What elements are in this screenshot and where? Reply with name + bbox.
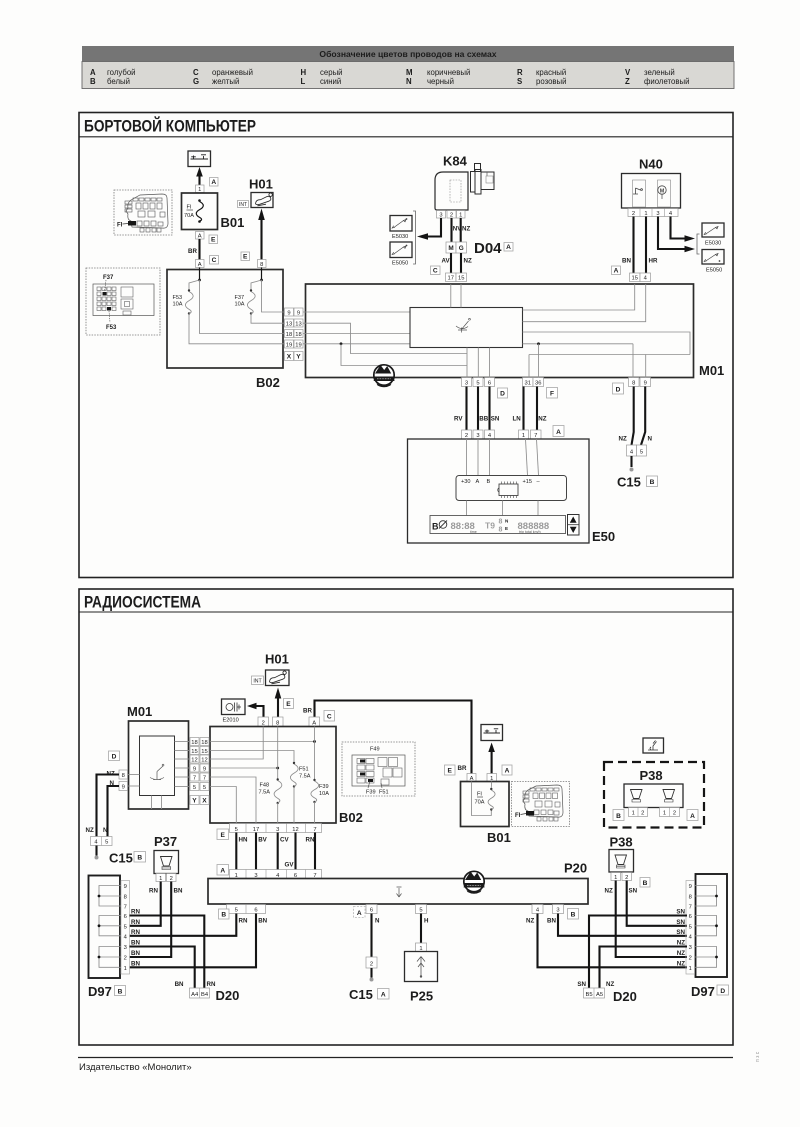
svg-text:A: A — [198, 262, 202, 268]
svg-text:P38: P38 — [640, 768, 663, 783]
svg-text:C15: C15 — [349, 987, 373, 1002]
wire C15 stub — [630, 456, 634, 472]
svg-text:19: 19 — [295, 342, 301, 348]
node A label — [210, 178, 219, 187]
wire N to C15 — [372, 914, 381, 958]
speaker P37 — [154, 834, 179, 874]
svg-text:G: G — [193, 77, 199, 86]
svg-text:A4: A4 — [191, 992, 199, 998]
wire AV to M01 pin 17 — [442, 253, 452, 273]
svg-text:18: 18 — [201, 740, 207, 746]
svg-text:9: 9 — [689, 884, 692, 890]
svg-text:6: 6 — [254, 908, 257, 914]
wire CV — [278, 833, 290, 870]
svg-text:10A: 10A — [319, 791, 329, 797]
svg-text:RN: RN — [131, 919, 140, 926]
svg-text:Обозначение цветов проводов на: Обозначение цветов проводов на схемах — [319, 49, 496, 59]
svg-text:NZ: NZ — [526, 918, 534, 925]
service box E5030 right — [702, 223, 724, 247]
svg-text:5: 5 — [203, 785, 206, 791]
svg-text:L: L — [301, 77, 306, 86]
wire NZ M01 pin 8 to C15 — [97, 775, 120, 837]
wire NZ — [537, 387, 547, 431]
node B label — [640, 878, 650, 888]
connector C15 pin 2 — [366, 957, 377, 968]
svg-text:BN: BN — [131, 960, 140, 967]
svg-text:7: 7 — [193, 775, 196, 781]
node E label — [209, 235, 218, 244]
svg-text:5: 5 — [476, 381, 479, 387]
svg-text:15: 15 — [458, 276, 464, 282]
wire NZ P20 pin4 to D97 pin1 — [526, 914, 687, 968]
wire H to P25 — [421, 914, 429, 944]
svg-text:9: 9 — [644, 381, 647, 387]
svg-text:E2010: E2010 — [223, 718, 239, 724]
svg-text:13: 13 — [295, 321, 301, 327]
svg-text:C: C — [212, 257, 217, 264]
node E label — [241, 252, 250, 261]
pins 8 9 of M01 bottom right — [629, 378, 651, 387]
svg-text:7.5A: 7.5A — [299, 774, 311, 780]
svg-text:N: N — [648, 436, 653, 443]
svg-text:2: 2 — [170, 876, 173, 882]
wire C15 stub — [95, 846, 99, 860]
svg-text:B: B — [643, 880, 648, 887]
service box E5030 — [390, 216, 412, 241]
svg-text:E: E — [505, 526, 508, 531]
svg-text:B02: B02 — [256, 375, 280, 390]
svg-text:S: S — [517, 77, 522, 86]
svg-text:2: 2 — [262, 720, 265, 726]
pins 8 9 of M01 left — [107, 770, 140, 791]
wire BB — [478, 387, 489, 431]
antenna amplifier E2010 — [222, 699, 246, 724]
fuse F51 7.5A — [290, 762, 310, 823]
wire LN — [513, 387, 524, 431]
svg-text:X: X — [202, 798, 207, 805]
svg-text:2: 2 — [625, 875, 628, 881]
svg-text:1: 1 — [159, 876, 162, 882]
svg-text:B: B — [221, 912, 226, 919]
wire NZ P38 pin1 to D97 pin2 — [605, 881, 688, 958]
svg-text:B: B — [487, 479, 491, 485]
wire loop right side — [523, 332, 691, 355]
svg-text:17: 17 — [447, 276, 453, 282]
svg-text:2: 2 — [124, 956, 127, 962]
wire from D04 pin 15 into M01 — [460, 284, 462, 308]
wire row 18 to pin A with junction — [210, 727, 316, 781]
D97 right label — [691, 984, 729, 999]
svg-text:синий: синий — [320, 77, 341, 86]
svg-text:E5050: E5050 — [706, 268, 722, 274]
svg-text:N: N — [406, 77, 412, 86]
svg-text:B4: B4 — [201, 992, 209, 998]
wire N M01 pin 9 to C15 — [108, 786, 120, 837]
svg-text:A: A — [90, 68, 96, 77]
svg-text:A: A — [211, 179, 216, 186]
svg-text:коричневый: коричневый — [427, 68, 470, 77]
wire N40 pin 3 arrow — [658, 217, 695, 253]
svg-text:13: 13 — [286, 321, 292, 327]
svg-text:FI: FI — [515, 813, 521, 819]
connector halves Y X labels — [190, 796, 209, 805]
svg-text:5: 5 — [689, 924, 692, 930]
wire battery feed inside B02 — [189, 268, 285, 334]
svg-text:NZ: NZ — [619, 436, 627, 443]
pins 1 2 of P37 — [156, 874, 176, 882]
D97 left label — [88, 984, 126, 999]
svg-text:E: E — [220, 832, 225, 839]
svg-text:A: A — [476, 479, 480, 485]
wires E50 pins to internal board — [467, 439, 539, 476]
radio set P20 — [208, 861, 588, 905]
horn unit H01 radio — [265, 652, 289, 686]
svg-text:2: 2 — [641, 811, 644, 817]
svg-text:FI: FI — [477, 792, 482, 798]
wire GV — [285, 833, 296, 870]
wire row 19 with junction — [303, 342, 467, 365]
pins 1 2 of P38 — [611, 873, 632, 881]
svg-text:P25: P25 — [410, 989, 433, 1004]
svg-text:B: B — [571, 912, 576, 919]
svg-text:3: 3 — [556, 908, 559, 914]
svg-text:31: 31 — [524, 381, 530, 387]
connector D20 pins B5 A5 — [577, 981, 636, 1004]
svg-text:NZ: NZ — [677, 950, 685, 957]
svg-text:19: 19 — [286, 342, 292, 348]
svg-text:BR: BR — [458, 765, 467, 772]
harness bracket — [413, 211, 416, 264]
svg-text:3: 3 — [465, 381, 468, 387]
fuse box B01 — [182, 193, 245, 230]
svg-text:M: M — [406, 68, 413, 77]
wires board to display — [467, 501, 539, 516]
pin A of B01 — [196, 232, 205, 240]
node A label — [553, 426, 564, 437]
svg-text:D: D — [616, 387, 621, 394]
fuse FI 70A radio — [472, 782, 496, 816]
svg-text:K84: K84 — [443, 154, 468, 169]
svg-text:NZ: NZ — [538, 416, 546, 423]
wire row 7 to bottom pin 17 — [210, 777, 256, 823]
svg-text:2: 2 — [689, 956, 692, 962]
section frame: radio system — [79, 589, 733, 1045]
connector C15 label — [349, 987, 389, 1002]
wire internal unit to pin 5 — [477, 348, 479, 378]
E50 internal board — [456, 476, 567, 501]
brand logo on P20 — [464, 871, 485, 893]
svg-text:NZ: NZ — [86, 827, 94, 834]
service box E5050 — [390, 242, 412, 267]
svg-text:A: A — [381, 992, 386, 999]
rear shelf speaker D97 right — [686, 874, 727, 977]
svg-text:Z: Z — [625, 77, 630, 86]
svg-text:M01: M01 — [699, 363, 724, 378]
svg-text:A5: A5 — [596, 992, 603, 998]
fuse F53 10A — [173, 289, 285, 344]
svg-text:BN: BN — [622, 258, 631, 265]
svg-text:time: time — [470, 530, 477, 534]
svg-text:H01: H01 — [249, 177, 273, 192]
svg-text:9: 9 — [193, 766, 196, 772]
pins 3 5 6 of M01 bottom — [462, 378, 495, 387]
wire D20 B4 to D97 pin 6 — [130, 916, 205, 989]
svg-text:5: 5 — [124, 924, 127, 930]
svg-text:B: B — [616, 813, 621, 820]
footer rule — [78, 1057, 733, 1059]
svg-text:9: 9 — [203, 766, 206, 772]
svg-text:6: 6 — [689, 914, 692, 920]
pins 18 15 12 9 7 5 of M01-B02 connector — [175, 738, 210, 791]
roof antenna icon box — [643, 738, 664, 753]
wire row 9 — [303, 311, 410, 313]
svg-text:7: 7 — [534, 433, 537, 439]
header: wire colour legend title bar — [82, 46, 734, 62]
node E label — [284, 699, 294, 709]
svg-text:GV: GV — [285, 862, 295, 869]
rear speakers P38 assembly — [604, 762, 704, 828]
pins 2 8 of B02 top — [258, 717, 283, 727]
svg-text:B: B — [90, 77, 96, 86]
svg-text:7: 7 — [124, 905, 127, 911]
node A label — [687, 810, 698, 821]
svg-text:BN: BN — [174, 888, 183, 895]
node C label — [210, 256, 219, 265]
svg-text:NZ: NZ — [464, 258, 472, 265]
D97 left coil group 2 — [98, 916, 121, 936]
svg-text:F48: F48 — [260, 783, 270, 789]
svg-text:D97: D97 — [88, 984, 112, 999]
junction box B02 radio — [210, 727, 363, 826]
svg-text:G: G — [459, 245, 464, 252]
svg-text:D: D — [720, 988, 725, 995]
svg-text:NZ: NZ — [462, 226, 470, 233]
body computer module M01 — [306, 284, 725, 378]
chip U1 on board — [498, 482, 518, 499]
brand logo on M01 — [374, 365, 395, 387]
svg-text:RN: RN — [306, 837, 315, 844]
svg-text:РАДИОСИСТЕМА: РАДИОСИСТЕМА — [84, 594, 201, 612]
svg-text:BN: BN — [547, 918, 556, 925]
connector halves X Y labels — [285, 352, 304, 361]
svg-text:BN: BN — [258, 918, 267, 925]
svg-text:черный: черный — [427, 77, 454, 86]
pins 5 17 3 12 7 of B02 bottom — [230, 824, 322, 833]
pins 1 7 of E50 — [519, 430, 542, 439]
svg-text:BR: BR — [303, 708, 312, 715]
svg-text:RN: RN — [131, 929, 140, 936]
svg-text:зеленый: зеленый — [644, 68, 675, 77]
svg-text:A: A — [357, 910, 362, 917]
fuse box B01 radio — [461, 782, 511, 846]
wire row 13 — [303, 323, 467, 353]
svg-text:NZ: NZ — [677, 960, 685, 967]
svg-text:CV: CV — [280, 837, 289, 844]
node C label — [431, 266, 441, 275]
fuse F37 10A — [235, 289, 285, 323]
svg-text:18: 18 — [286, 332, 292, 338]
svg-text:SN: SN — [676, 929, 685, 936]
wire from D04 pin 17 into M01 — [450, 284, 452, 308]
svg-text:N40: N40 — [639, 157, 663, 172]
svg-text:P38: P38 — [610, 835, 633, 850]
wire K84 pin 1 NZ — [461, 218, 471, 242]
svg-text:12: 12 — [201, 757, 207, 763]
svg-text:N: N — [375, 918, 380, 925]
svg-text:E5030: E5030 — [705, 241, 721, 247]
wire labels SN NZ at D97 right — [676, 909, 685, 968]
svg-text:5: 5 — [235, 908, 238, 914]
D97 right coil group 2 — [695, 916, 718, 936]
node E label — [445, 765, 456, 775]
svg-text:1: 1 — [198, 187, 201, 193]
D97 right coil group 1 — [695, 886, 718, 907]
antenna P25 — [405, 952, 438, 1004]
service box E5050 right — [702, 250, 724, 274]
svg-text:17: 17 — [253, 827, 259, 833]
svg-text:D: D — [500, 391, 505, 398]
svg-text:5: 5 — [235, 827, 238, 833]
svg-text:NZ: NZ — [606, 981, 614, 988]
svg-text:3: 3 — [276, 827, 279, 833]
svg-text:E50: E50 — [592, 529, 615, 544]
svg-text:70A: 70A — [475, 800, 485, 806]
wire K84 pin 3 to harness arrow — [417, 218, 441, 240]
wire BN P37 pin2 to D97 pin2 — [130, 882, 183, 958]
wire to top pin 4 (N40) — [523, 284, 646, 322]
svg-text:6: 6 — [370, 908, 373, 914]
svg-text:B: B — [118, 989, 123, 996]
pin 1 of P25 — [416, 943, 427, 952]
pin 6 of P20 bottom centre — [366, 905, 377, 914]
wire BN P20 pin6 to D97 pin1 — [130, 914, 268, 968]
svg-text:оранжевый: оранжевый — [212, 68, 253, 77]
wire HR N40 pin 1 — [646, 217, 658, 274]
svg-text:HN: HN — [239, 837, 248, 844]
svg-text:BN: BN — [131, 950, 140, 957]
svg-text:желтый: желтый — [212, 77, 239, 86]
pins 4 3 of P20 bottom right — [532, 905, 564, 914]
fuse F48 7.5A — [259, 778, 282, 823]
svg-text:E: E — [211, 237, 216, 244]
svg-text:A: A — [198, 234, 202, 240]
svg-text:1: 1 — [632, 811, 635, 817]
wire SN — [490, 387, 500, 431]
wire H01 feed inside B02 — [251, 268, 285, 313]
wire row to bottom pin 8 with junction — [523, 342, 634, 377]
wire SN P38 pin2 to D97 pin5 — [627, 881, 687, 926]
svg-text:B: B — [137, 855, 142, 862]
harness bracket right — [697, 234, 700, 254]
svg-text:8: 8 — [499, 519, 503, 526]
svg-text:RN: RN — [149, 888, 158, 895]
node D label — [498, 388, 508, 398]
svg-text:15: 15 — [191, 749, 197, 755]
inset picture: fuse panel with FI radio — [512, 782, 570, 827]
svg-text:A: A — [505, 768, 510, 775]
pin 1 of B01 — [196, 185, 205, 193]
svg-text:A: A — [312, 720, 316, 726]
svg-text:9: 9 — [122, 785, 125, 791]
svg-text:1: 1 — [124, 966, 127, 972]
svg-text:H: H — [424, 918, 429, 925]
svg-text:FI: FI — [187, 205, 192, 211]
svg-text:8: 8 — [632, 381, 635, 387]
pins 2 1 3 4 of N40 — [628, 209, 678, 217]
svg-text:C15: C15 — [617, 475, 641, 490]
inset picture: engine bay fuse box with FI — [114, 190, 172, 235]
svg-text:R: R — [517, 68, 523, 77]
svg-text:C15: C15 — [109, 851, 133, 866]
svg-text:+30: +30 — [461, 479, 471, 485]
wire internal unit to pin 6 — [489, 348, 491, 378]
INT label — [252, 676, 264, 685]
svg-text:RN: RN — [207, 981, 216, 988]
wire BV — [256, 833, 268, 870]
svg-text:белый: белый — [107, 77, 130, 86]
svg-text:X: X — [287, 354, 292, 361]
connector C15 label — [617, 475, 658, 490]
svg-text:5: 5 — [193, 785, 196, 791]
svg-text:3: 3 — [476, 433, 479, 439]
wire labels RN BN at D97 left — [131, 909, 140, 968]
svg-text:trip total km/h: trip total km/h — [519, 530, 541, 534]
node F label — [547, 388, 558, 399]
svg-text:A: A — [614, 268, 619, 275]
fuel pump unit N40 — [622, 157, 681, 209]
svg-text:M: M — [660, 188, 665, 194]
svg-text:D97: D97 — [691, 984, 715, 999]
wire row 9 junction to pin 8 branch — [210, 727, 279, 780]
svg-text:D20: D20 — [613, 989, 637, 1004]
connector C15 label — [109, 851, 146, 866]
svg-text:F37: F37 — [103, 275, 114, 281]
node B label — [613, 810, 624, 821]
wire RN P20 pin5 to D97 pin4 — [130, 914, 248, 936]
wire BN P20 pin3 to D97 pin4 — [547, 914, 687, 936]
svg-text:7.5A: 7.5A — [259, 790, 271, 796]
connector C15 pins 4 5 — [627, 445, 647, 456]
svg-text:7: 7 — [203, 775, 206, 781]
pins 1 3 4 6 7 of P20 top — [230, 870, 322, 879]
svg-text:9: 9 — [297, 310, 300, 316]
svg-text:3: 3 — [689, 945, 692, 951]
wire row 18 — [303, 333, 410, 335]
svg-text:1: 1 — [689, 966, 692, 972]
svg-text:1: 1 — [614, 875, 617, 881]
INT label — [238, 201, 249, 209]
wire row 5 to bottom pin 5 — [210, 787, 236, 824]
front speaker P38 — [609, 835, 634, 873]
svg-text:B01: B01 — [221, 215, 245, 230]
svg-text:3: 3 — [656, 211, 659, 217]
svg-text:розовый: розовый — [536, 77, 567, 86]
svg-text:2: 2 — [632, 211, 635, 217]
trip computer display E50 — [408, 439, 616, 544]
svg-text:3: 3 — [439, 213, 442, 219]
svg-text:15: 15 — [201, 749, 207, 755]
node A label — [217, 865, 229, 876]
node A label — [504, 243, 513, 252]
battery radio — [481, 725, 503, 741]
connector pins 9 13 18 19 between B02 and M01 — [285, 308, 304, 348]
svg-text:RV: RV — [454, 416, 463, 423]
inset picture: fuse panel F49 F39 F51 — [342, 742, 415, 796]
wire battery arrow — [488, 743, 495, 774]
node A label — [612, 266, 621, 275]
svg-text:70A: 70A — [184, 213, 194, 219]
node E label — [217, 829, 229, 840]
